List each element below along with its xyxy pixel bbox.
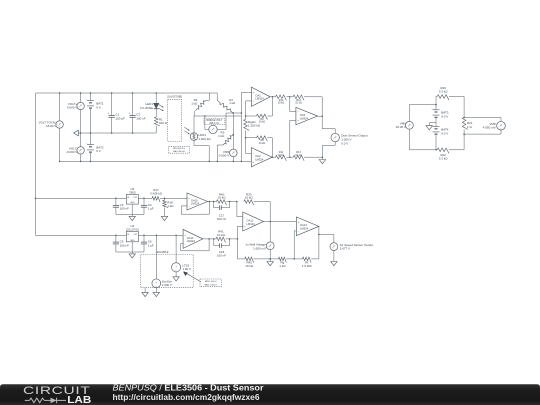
svg-text:4.950 mV: 4.950 mV xyxy=(483,126,496,130)
svg-text:10 kΩ: 10 kΩ xyxy=(295,154,302,157)
wire bridge meter left lead xyxy=(205,116,209,129)
LED LED1 xyxy=(140,92,164,117)
svg-text:7805: 7805 xyxy=(129,191,136,195)
svg-text:1 kΩ: 1 kΩ xyxy=(279,264,286,268)
svg-text:9.0 V: 9.0 V xyxy=(441,131,448,135)
wire row2 to OA12 node xyxy=(230,238,238,240)
svg-text:1 kΩ: 1 kΩ xyxy=(167,204,174,208)
svg-text:LAB: LAB xyxy=(67,395,91,405)
svg-text:BENPUSQ / ELE3506 - Dust Senso: BENPUSQ / ELE3506 - Dust Sensor xyxy=(113,382,265,392)
resistor R30 10k feedback xyxy=(244,192,270,221)
ground GND1 0V xyxy=(74,130,79,136)
wire bridge left node row xyxy=(194,115,241,117)
resistor R41 10k xyxy=(213,230,230,243)
svg-text:MAX 400 kΩ: MAX 400 kΩ xyxy=(173,150,185,153)
svg-text:1 kΩ: 1 kΩ xyxy=(229,101,236,105)
voltmeter VM6 xyxy=(396,105,414,150)
label box BRIDGE VOLT xyxy=(204,119,225,125)
wire row2 ground collector xyxy=(116,251,144,253)
svg-text:295.0 mV: 295.0 mV xyxy=(209,123,219,125)
svg-text:MIN 1.000 V: MIN 1.000 V xyxy=(205,281,217,283)
wire bridge meter right lead xyxy=(217,113,226,129)
wire VM6 bottom lead xyxy=(409,149,437,151)
wire +9V top rail xyxy=(36,92,218,94)
resistor R6 10k xyxy=(257,114,268,124)
enclosure EXAMPLE dashed box xyxy=(141,251,194,288)
svg-text:LM324: LM324 xyxy=(187,239,196,243)
svg-text:9.0 V: 9.0 V xyxy=(441,115,448,119)
op-amp OA12 LM324 xyxy=(243,212,264,231)
wire R6 to OA1 output xyxy=(267,96,273,116)
battery BAT4 9V xyxy=(431,123,448,150)
ground battery midpoint xyxy=(426,123,436,130)
svg-text:330 Ω: 330 Ω xyxy=(159,121,168,125)
wire OA3 output xyxy=(318,115,336,133)
resistor R18 1k xyxy=(163,198,175,216)
wire R10-R12 junction to OA3 inverting xyxy=(286,96,296,112)
ground wall voltage meter xyxy=(267,262,273,266)
wire right branch upper xyxy=(463,97,465,119)
svg-text:100 nF: 100 nF xyxy=(217,217,227,221)
svg-text:18.00 V: 18.00 V xyxy=(46,124,56,128)
ground example box xyxy=(142,288,148,297)
resistor R8 10k xyxy=(246,136,268,145)
op-amp OA13 LM324 xyxy=(296,217,319,236)
svg-text:1.250 kΩ: 1.250 kΩ xyxy=(248,124,261,128)
wire OA10 follower feedback xyxy=(181,201,213,214)
svg-text:MAX 1.000 V: MAX 1.000 V xyxy=(205,283,218,286)
resistor R5 1k xyxy=(217,130,234,162)
wire U3 output row xyxy=(138,197,152,199)
note box LDR range xyxy=(169,146,190,153)
footer title xyxy=(113,382,265,392)
resistor Rf 1.5M xyxy=(302,257,313,268)
svg-text:10 kΩ: 10 kΩ xyxy=(259,121,266,124)
wire bridge right node row xyxy=(226,112,242,114)
svg-text:100 µF: 100 µF xyxy=(115,116,125,120)
wire U3 input row xyxy=(36,198,127,200)
resistor R11 10k xyxy=(276,151,287,161)
capacitor C17 100nF parallel xyxy=(214,202,230,222)
wire Rg to Rf xyxy=(286,231,302,260)
op-amp OA2 LM324 xyxy=(251,148,272,167)
wire bridge right stub xyxy=(216,93,218,100)
svg-text:BRIDGE VOLT: BRIDGE VOLT xyxy=(207,120,223,122)
wire Rf to OA13 output xyxy=(311,226,319,259)
op-amp OA3 LM324 xyxy=(296,107,318,125)
svg-text:100 nF: 100 nF xyxy=(120,207,130,211)
svg-text:1.5 MΩ: 1.5 MΩ xyxy=(302,264,313,268)
voltmeter VOLT+ xyxy=(67,92,84,134)
svg-text:U4: U4 xyxy=(130,224,134,228)
svg-text:3.3 kΩ: 3.3 kΩ xyxy=(439,89,449,93)
svg-text:10 kΩ: 10 kΩ xyxy=(217,233,226,237)
note box min max xyxy=(200,279,221,287)
svg-text:LED1: LED1 xyxy=(145,102,153,106)
svg-text:1.00 V: 1.00 V xyxy=(182,267,191,271)
svg-text:1.650 mV: 1.650 mV xyxy=(253,246,266,250)
svg-text:10 kΩ: 10 kΩ xyxy=(245,196,254,200)
op-amp OA11 LM324 xyxy=(183,229,203,248)
battery BAT2 9V xyxy=(86,133,104,162)
capacitor C18 100nF parallel xyxy=(214,239,230,258)
svg-text:9 V: 9 V xyxy=(96,149,101,153)
wire row1 ground collector xyxy=(116,214,144,216)
wire R8 to OA2 output xyxy=(267,138,273,158)
svg-text:100 nF: 100 nF xyxy=(217,254,227,258)
svg-text:10 kΩ: 10 kΩ xyxy=(278,154,285,157)
voltage source LTS1 xyxy=(172,235,192,276)
ground output stage xyxy=(319,160,325,164)
resistor R21 1ohm xyxy=(462,117,473,149)
photoresistor LDR1 xyxy=(184,116,211,162)
resistor Rgain 1.25k xyxy=(244,119,261,130)
wire OA1 noninverting input xyxy=(241,91,251,93)
svg-text:GND: GND xyxy=(130,240,135,242)
svg-text:100 nF: 100 nF xyxy=(120,243,130,247)
wire OA2 inverting lead xyxy=(245,130,252,153)
svg-text:9 V: 9 V xyxy=(96,105,101,109)
svg-text:MIN 300 Ω lx: MIN 300 Ω lx xyxy=(173,148,186,150)
wire node A row xyxy=(245,115,257,117)
svg-text:1 µF: 1 µF xyxy=(148,243,154,247)
voltmeter VOLT- xyxy=(66,133,84,162)
wire OA12 noninverting lead xyxy=(237,226,243,259)
footer url xyxy=(113,392,260,402)
wire VM6 top lead xyxy=(409,104,436,106)
svg-text:100 nF: 100 nF xyxy=(136,116,146,120)
voltmeter BRIDGE VOLT xyxy=(209,125,217,133)
regulator U4 LD1117V33 xyxy=(126,224,139,252)
svg-text:GLASSTUBE: GLASSTUBE xyxy=(167,96,182,99)
wire OA12 output row xyxy=(264,221,297,223)
resistor R13 10k xyxy=(293,151,304,161)
voltage source SunSim xyxy=(152,235,173,292)
svg-text:EXAMPLE: EXAMPLE xyxy=(157,251,169,254)
svg-text:3.3 kΩ: 3.3 kΩ xyxy=(439,157,449,161)
logo CIRCUIT text xyxy=(23,385,91,397)
svg-text:LM324: LM324 xyxy=(255,97,264,101)
svg-text:LM324: LM324 xyxy=(300,117,309,121)
wire OA13 output branch xyxy=(318,234,334,243)
capacitor C6 1uF xyxy=(141,235,154,252)
resistor R20 3.3k xyxy=(436,86,464,100)
battery BAT3 9V xyxy=(431,97,448,123)
wire U4 output row xyxy=(138,235,183,237)
wire OA1 inverting lead xyxy=(246,101,252,120)
ground SunSim xyxy=(153,292,159,296)
svg-text:LTL-307EE: LTL-307EE xyxy=(140,106,153,110)
svg-text:18.00 V: 18.00 V xyxy=(396,125,406,129)
svg-text:9.000 V: 9.000 V xyxy=(67,106,77,110)
svg-text:10 kΩ: 10 kΩ xyxy=(259,142,266,145)
capacitor C4 1uF xyxy=(141,198,154,215)
wire 0V mid rail xyxy=(78,132,156,134)
svg-text:http://circuitlab.com/cm2gkqqf: http://circuitlab.com/cm2gkqqfwzxe6 xyxy=(113,392,260,402)
battery BAT1 9V xyxy=(86,92,104,134)
svg-text:10 kΩ: 10 kΩ xyxy=(245,264,254,268)
svg-text:LM324: LM324 xyxy=(255,157,264,161)
svg-text:1.000 kΩ: 1.000 kΩ xyxy=(198,137,211,141)
logo circuit glyph xyxy=(25,398,66,404)
svg-text:0.000 V: 0.000 V xyxy=(219,154,229,158)
svg-text:5.677 V: 5.677 V xyxy=(340,247,350,251)
wire R13 to ground node xyxy=(304,156,323,158)
voltmeter 1x Wall Voltage xyxy=(245,222,274,262)
svg-text:LD1117V33: LD1117V33 xyxy=(126,229,139,232)
voltmeter Dust Sensor Output xyxy=(322,133,367,159)
capacitor C3 100nF xyxy=(113,198,129,214)
resistor R1 330 xyxy=(154,117,167,133)
svg-text:LM324: LM324 xyxy=(300,227,309,231)
svg-text:1 kΩ: 1 kΩ xyxy=(218,134,225,138)
resistor R22 3.3k xyxy=(437,148,464,161)
svg-text:1 kΩ: 1 kΩ xyxy=(191,102,198,106)
svg-text:0.0 V: 0.0 V xyxy=(341,141,348,145)
resistor R42 10k xyxy=(245,257,254,268)
svg-text:-9.000 V: -9.000 V xyxy=(66,150,77,154)
regulator U3 7805 xyxy=(126,187,138,214)
annotation arrow to note xyxy=(183,272,201,282)
ground LTS1 xyxy=(173,277,179,281)
capacitor C5 100nF xyxy=(113,235,129,252)
logo LAB text xyxy=(67,395,91,405)
svg-text:LM324: LM324 xyxy=(247,222,256,226)
svg-text:10 kΩ: 10 kΩ xyxy=(295,102,302,105)
voltmeter VOLT TOTAL xyxy=(39,92,64,162)
wire left +9V feed rail xyxy=(35,93,37,235)
svg-text:GND: GND xyxy=(130,202,135,204)
resistor Rg 1k xyxy=(278,257,286,268)
resistor R3 1k xyxy=(191,98,206,116)
svg-text:10 kΩ: 10 kΩ xyxy=(218,196,227,200)
svg-text:1.000 V: 1.000 V xyxy=(162,283,172,287)
resistor R17 3.428k xyxy=(150,188,187,202)
voltmeter VM5 xyxy=(219,135,237,163)
wire -9V bottom rail xyxy=(60,160,252,162)
capacitor C1 100uF xyxy=(108,92,125,134)
wire bridge left stub xyxy=(206,93,210,100)
svg-text:1 Ω: 1 Ω xyxy=(467,125,473,129)
op-amp OA1 LM324 xyxy=(252,87,271,106)
ground R18 xyxy=(161,216,167,220)
op-amp OA10 LM324 xyxy=(187,193,208,210)
resistor R40 10k xyxy=(213,192,230,205)
wire R42 to Rg xyxy=(254,258,279,260)
resistor R4 1k xyxy=(217,98,236,113)
svg-text:10 kΩ: 10 kΩ xyxy=(278,102,285,105)
wire OA11 follower feedback xyxy=(181,238,214,251)
resistor R12 10k xyxy=(293,95,304,105)
ground U4 xyxy=(129,252,135,258)
voltmeter VM8 xyxy=(464,117,505,134)
svg-text:3.428 kΩ: 3.428 kΩ xyxy=(150,192,163,196)
voltmeter Air Speed Sensor Output xyxy=(330,243,373,262)
ground U3 xyxy=(129,215,135,221)
wire U4 input row xyxy=(36,235,127,237)
wire OA1 output row xyxy=(270,96,275,98)
wire in-amp input rail xyxy=(241,92,243,162)
capacitor C2 100nF xyxy=(129,92,146,134)
glass tube dashed enclosure xyxy=(167,96,182,142)
wire R11-R13 junction to OA3 noninverting xyxy=(286,120,296,158)
wire OA2 output row xyxy=(272,156,275,158)
wire gain network row xyxy=(238,258,245,260)
svg-text:LM324: LM324 xyxy=(191,202,200,206)
footer bar xyxy=(0,384,540,405)
wire bridge right branch xyxy=(233,113,235,135)
ground air speed meter xyxy=(331,262,337,266)
svg-text:1 µF: 1 µF xyxy=(148,207,154,211)
wire R12 to output node xyxy=(304,97,322,116)
resistor R10 10k xyxy=(276,95,287,105)
wire row1 to OA12 xyxy=(230,201,243,217)
